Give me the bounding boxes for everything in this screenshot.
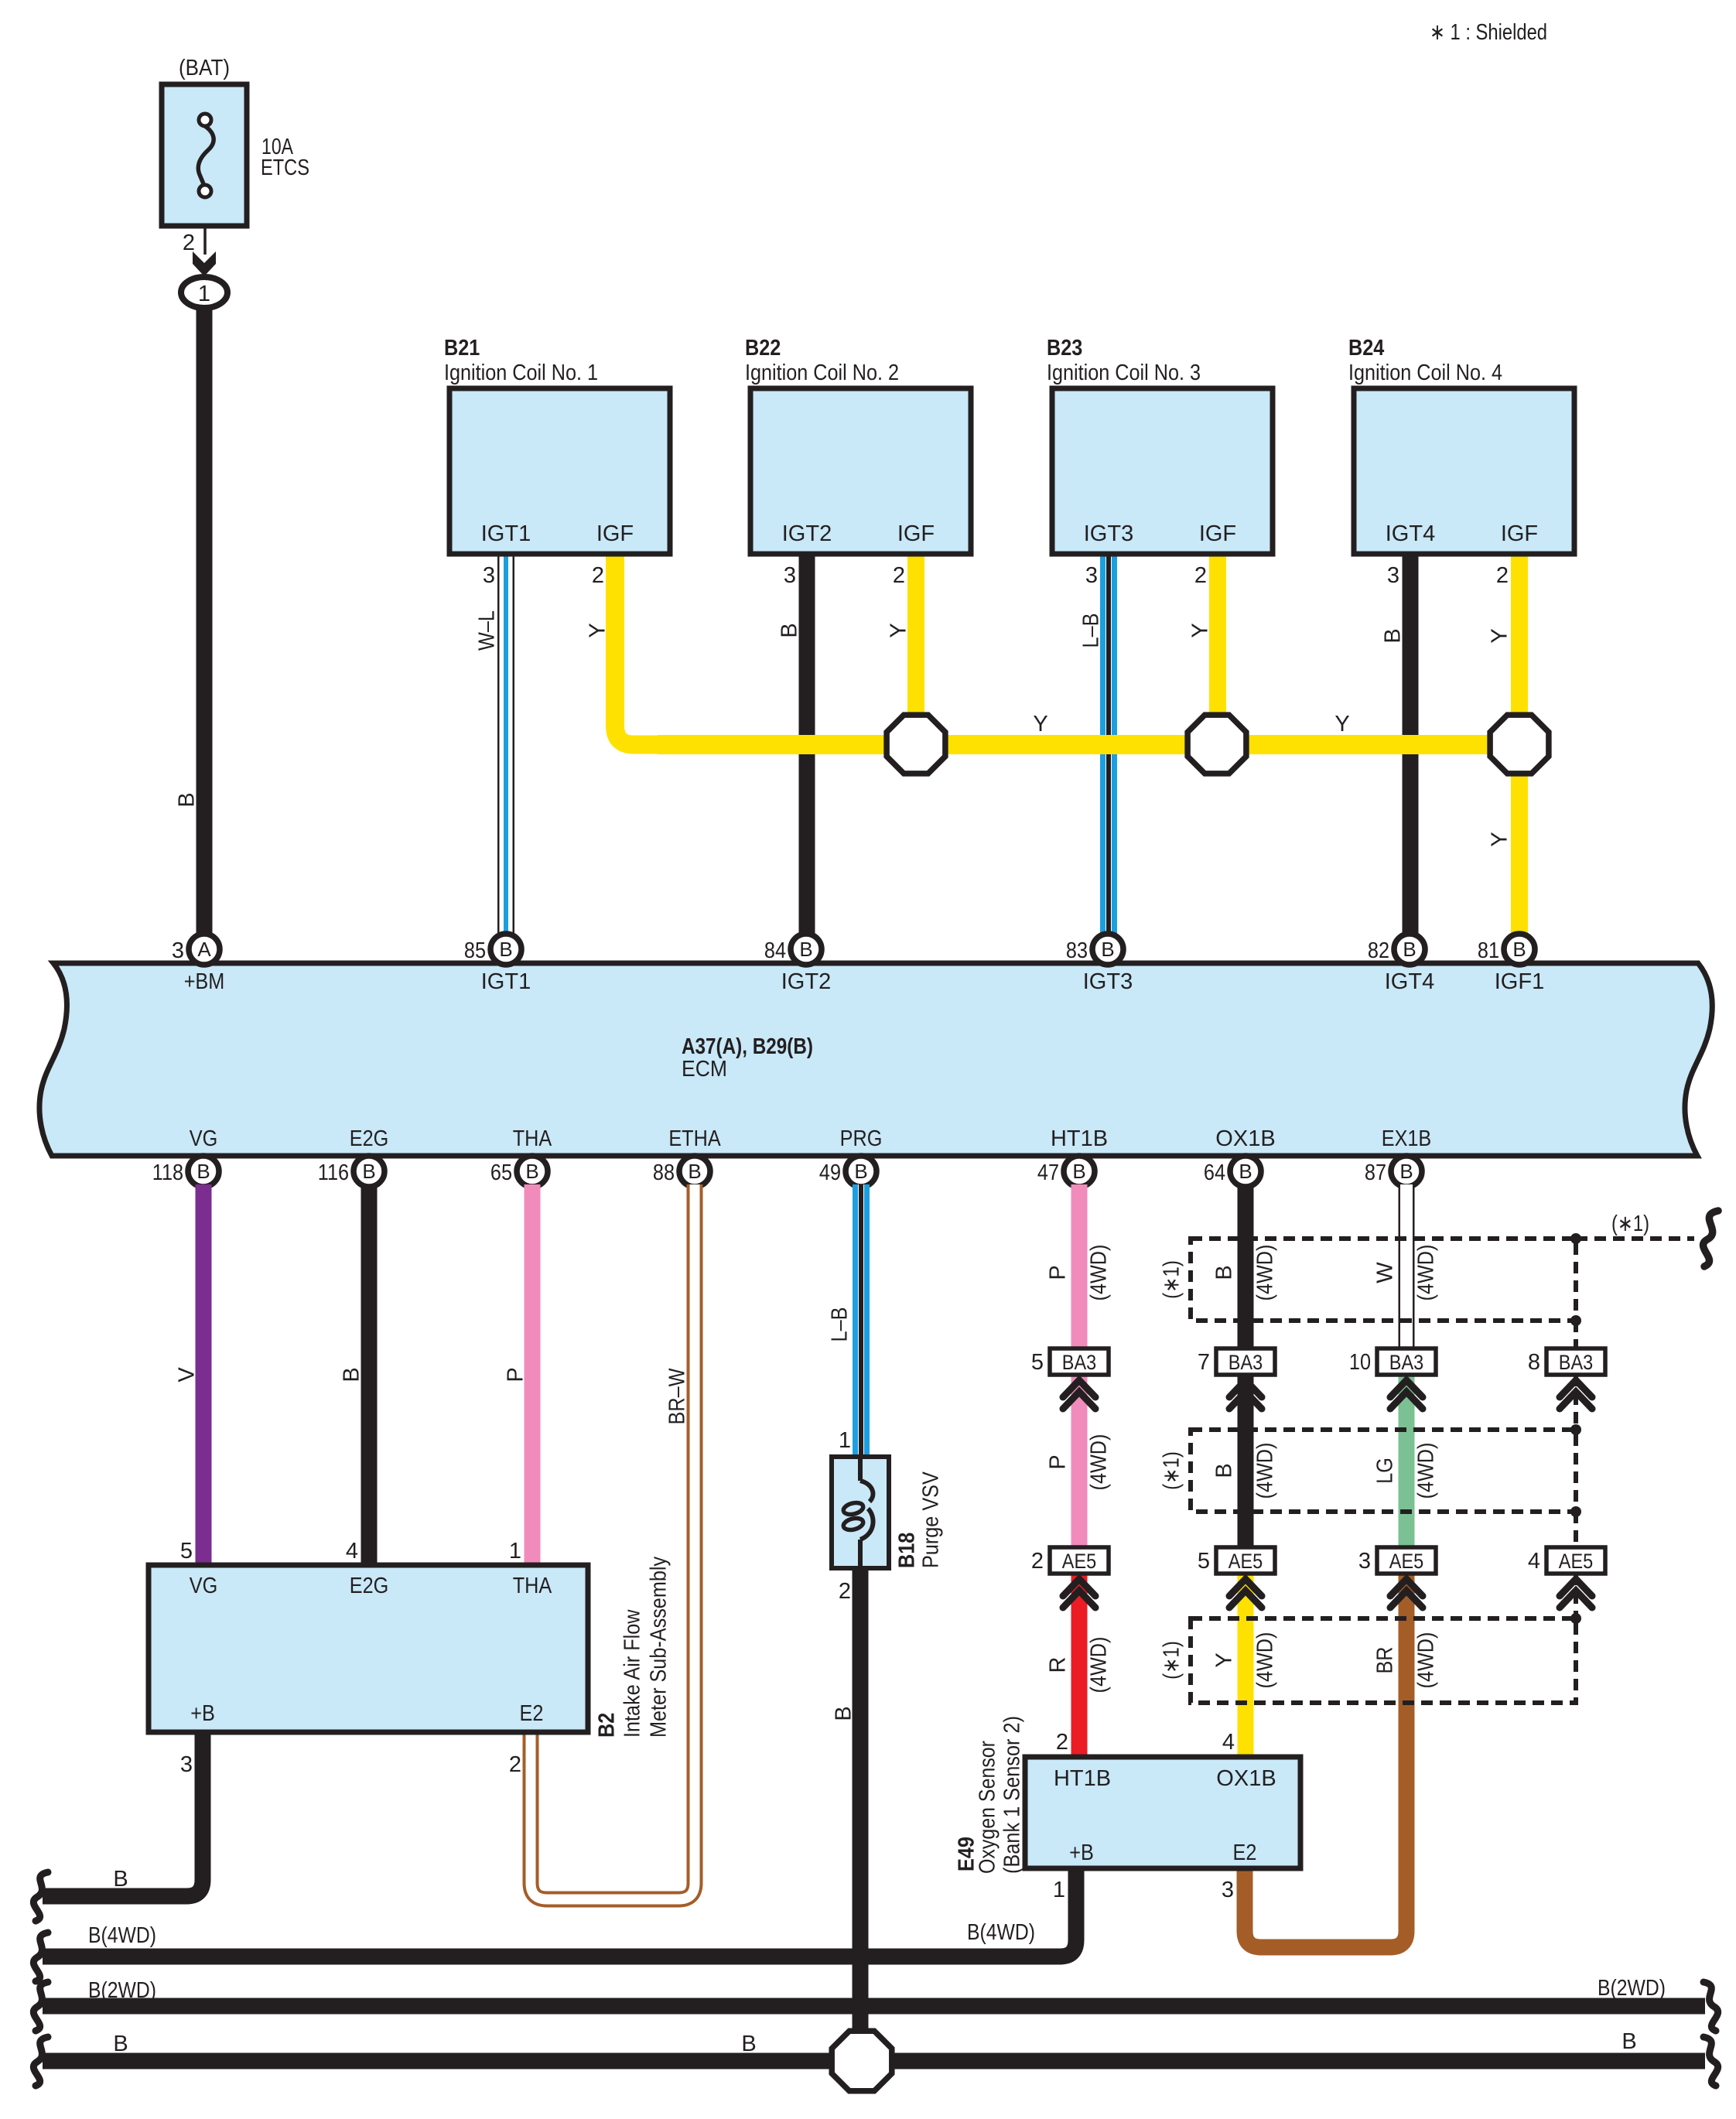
svg-text:HT1B: HT1B <box>1054 1766 1111 1791</box>
svg-text:LG: LG <box>1372 1458 1397 1484</box>
svg-text:B(4WD): B(4WD) <box>88 1923 156 1948</box>
svg-text:118: 118 <box>152 1160 183 1185</box>
svg-text:2: 2 <box>893 563 905 588</box>
svg-text:B: B <box>741 2032 756 2056</box>
svg-text:5: 5 <box>180 1539 193 1564</box>
svg-text:(4WD): (4WD) <box>1086 1245 1111 1301</box>
svg-text:(4WD): (4WD) <box>1413 1443 1438 1499</box>
svg-text:+B: +B <box>190 1701 215 1726</box>
svg-text:VG: VG <box>190 1126 218 1151</box>
svg-text:(∗1): (∗1) <box>1611 1212 1649 1236</box>
svg-text:B: B <box>1399 1160 1413 1183</box>
svg-text:BR: BR <box>1372 1647 1397 1674</box>
svg-text:IGT4: IGT4 <box>1385 969 1435 994</box>
svg-text:3: 3 <box>483 563 495 588</box>
svg-text:IGF: IGF <box>596 521 634 546</box>
svg-text:B18: B18 <box>894 1533 919 1568</box>
svg-text:3: 3 <box>784 563 796 588</box>
svg-text:3: 3 <box>1387 563 1399 588</box>
svg-text:B21: B21 <box>444 336 480 361</box>
svg-text:Ignition Coil No. 2: Ignition Coil No. 2 <box>745 361 899 385</box>
svg-text:V: V <box>174 1367 199 1382</box>
svg-text:Y: Y <box>886 623 911 637</box>
svg-text:W–L: W–L <box>474 610 499 651</box>
svg-text:B24: B24 <box>1348 336 1384 361</box>
svg-text:5: 5 <box>1031 1350 1044 1375</box>
svg-text:84: 84 <box>764 938 786 963</box>
svg-text:BR–W: BR–W <box>665 1368 689 1424</box>
svg-text:83: 83 <box>1066 938 1088 963</box>
svg-text:B23: B23 <box>1047 336 1082 361</box>
svg-text:AE5: AE5 <box>1062 1550 1096 1573</box>
svg-text:2: 2 <box>1194 563 1207 588</box>
svg-text:(Bank 1 Sensor 2): (Bank 1 Sensor 2) <box>1000 1716 1024 1874</box>
svg-text:BA3: BA3 <box>1559 1351 1593 1374</box>
svg-text:2: 2 <box>509 1752 521 1777</box>
svg-text:BA3: BA3 <box>1229 1351 1263 1374</box>
svg-text:P: P <box>1045 1454 1070 1469</box>
svg-text:+BM: +BM <box>184 969 225 994</box>
svg-text:82: 82 <box>1368 938 1389 963</box>
svg-text:B: B <box>362 1160 375 1183</box>
svg-text:VG: VG <box>190 1574 218 1598</box>
svg-text:PRG: PRG <box>840 1126 883 1151</box>
svg-text:(4WD): (4WD) <box>1413 1632 1438 1689</box>
svg-text:2: 2 <box>839 1579 851 1604</box>
svg-text:4: 4 <box>346 1539 358 1564</box>
svg-text:BA3: BA3 <box>1389 1351 1423 1374</box>
svg-text:(∗1): (∗1) <box>1159 1641 1184 1680</box>
svg-text:Y: Y <box>1211 1652 1236 1667</box>
svg-text:AE5: AE5 <box>1559 1550 1593 1573</box>
svg-text:B: B <box>854 1160 867 1183</box>
svg-text:B: B <box>113 1867 128 1892</box>
svg-text:3: 3 <box>1222 1878 1234 1902</box>
svg-text:ETCS: ETCS <box>261 156 309 180</box>
svg-text:B: B <box>499 938 512 961</box>
svg-text:E2G: E2G <box>350 1574 389 1598</box>
svg-text:3: 3 <box>172 938 184 963</box>
svg-text:Oxygen Sensor: Oxygen Sensor <box>975 1741 1000 1874</box>
svg-text:B: B <box>799 938 812 961</box>
svg-text:A37(A), B29(B): A37(A), B29(B) <box>682 1034 813 1059</box>
svg-text:OX1B: OX1B <box>1216 1766 1276 1791</box>
svg-text:1: 1 <box>509 1539 521 1564</box>
svg-text:IGT1: IGT1 <box>481 521 531 546</box>
svg-text:81: 81 <box>1478 938 1499 963</box>
svg-text:2: 2 <box>1056 1730 1068 1755</box>
svg-text:8: 8 <box>1528 1350 1540 1375</box>
svg-text:B: B <box>1403 938 1416 961</box>
svg-text:Ignition Coil No. 4: Ignition Coil No. 4 <box>1348 361 1502 385</box>
svg-text:85: 85 <box>464 938 486 963</box>
svg-text:64: 64 <box>1204 1160 1225 1185</box>
svg-text:ETHA: ETHA <box>668 1126 721 1151</box>
svg-text:B: B <box>174 792 199 807</box>
svg-text:IGT4: IGT4 <box>1386 521 1436 546</box>
svg-text:B: B <box>1211 1265 1236 1280</box>
svg-text:Purge VSV: Purge VSV <box>918 1471 943 1568</box>
svg-text:IGT2: IGT2 <box>782 521 832 546</box>
svg-text:B: B <box>831 1706 856 1721</box>
svg-text:(4WD): (4WD) <box>1086 1434 1111 1491</box>
svg-text:B: B <box>1211 1463 1236 1478</box>
svg-text:Y: Y <box>1487 628 1512 643</box>
svg-text:AE5: AE5 <box>1389 1550 1423 1573</box>
svg-text:116: 116 <box>318 1160 349 1185</box>
svg-text:87: 87 <box>1365 1160 1386 1185</box>
svg-text:W: W <box>1372 1262 1397 1283</box>
svg-text:Y: Y <box>1188 623 1212 637</box>
svg-text:AE5: AE5 <box>1229 1550 1263 1573</box>
svg-text:B: B <box>1380 628 1405 643</box>
svg-text:+B: +B <box>1069 1840 1094 1865</box>
svg-text:B22: B22 <box>745 336 781 361</box>
svg-text:4: 4 <box>1528 1549 1540 1574</box>
svg-text:2: 2 <box>1031 1549 1044 1574</box>
svg-text:Meter Sub-Assembly: Meter Sub-Assembly <box>646 1556 671 1738</box>
svg-text:1: 1 <box>1053 1878 1065 1902</box>
svg-text:R: R <box>1045 1657 1070 1673</box>
svg-text:4: 4 <box>1222 1730 1235 1755</box>
svg-text:B(2WD): B(2WD) <box>88 1978 156 2003</box>
svg-text:5: 5 <box>1198 1549 1210 1574</box>
svg-text:(4WD): (4WD) <box>1252 1245 1277 1301</box>
svg-text:B: B <box>1072 1160 1085 1183</box>
svg-text:B: B <box>525 1160 538 1183</box>
svg-text:P: P <box>503 1367 528 1382</box>
svg-text:(BAT): (BAT) <box>179 56 230 80</box>
svg-text:65: 65 <box>490 1160 512 1185</box>
svg-text:2: 2 <box>183 231 195 255</box>
svg-text:B2: B2 <box>594 1713 619 1738</box>
svg-text:HT1B: HT1B <box>1051 1126 1108 1151</box>
svg-text:3: 3 <box>180 1752 193 1777</box>
svg-text:B: B <box>1512 938 1526 961</box>
svg-text:L–B: L–B <box>827 1307 852 1342</box>
svg-text:2: 2 <box>592 563 604 588</box>
svg-text:∗ 1 : Shielded: ∗ 1 : Shielded <box>1430 20 1547 45</box>
svg-text:A: A <box>197 938 211 961</box>
svg-text:Y: Y <box>1487 832 1512 846</box>
svg-text:IGT1: IGT1 <box>481 969 531 994</box>
svg-text:47: 47 <box>1037 1160 1059 1185</box>
svg-text:(4WD): (4WD) <box>1413 1245 1438 1301</box>
svg-text:(∗1): (∗1) <box>1159 1451 1184 1490</box>
svg-text:B: B <box>1622 2029 1636 2054</box>
svg-text:3: 3 <box>1085 563 1098 588</box>
svg-text:IGF: IGF <box>1501 521 1538 546</box>
svg-text:ECM: ECM <box>682 1057 727 1082</box>
svg-text:49: 49 <box>819 1160 841 1185</box>
svg-text:IGT3: IGT3 <box>1083 969 1133 994</box>
svg-text:BA3: BA3 <box>1062 1351 1096 1374</box>
svg-text:2: 2 <box>1496 563 1509 588</box>
svg-text:Y: Y <box>1334 712 1349 737</box>
svg-text:E2: E2 <box>520 1701 544 1726</box>
svg-text:Y: Y <box>1033 712 1047 737</box>
svg-text:Ignition Coil No. 1: Ignition Coil No. 1 <box>444 361 598 385</box>
svg-text:(4WD): (4WD) <box>1252 1443 1277 1499</box>
svg-text:Ignition Coil No. 3: Ignition Coil No. 3 <box>1047 361 1201 385</box>
svg-text:IGF1: IGF1 <box>1495 969 1545 994</box>
svg-text:IGF: IGF <box>1199 521 1236 546</box>
svg-text:B: B <box>1101 938 1114 961</box>
svg-text:IGT3: IGT3 <box>1084 521 1134 546</box>
svg-text:Y: Y <box>585 623 610 637</box>
svg-text:THA: THA <box>513 1574 552 1598</box>
svg-text:B(2WD): B(2WD) <box>1598 1976 1666 2001</box>
svg-text:P: P <box>1045 1265 1070 1280</box>
svg-text:B: B <box>1239 1160 1252 1183</box>
svg-text:Intake Air Flow: Intake Air Flow <box>620 1609 644 1738</box>
svg-text:(∗1): (∗1) <box>1159 1260 1184 1299</box>
svg-text:1: 1 <box>198 282 210 306</box>
svg-text:10: 10 <box>1349 1350 1371 1375</box>
svg-text:(4WD): (4WD) <box>1086 1637 1111 1693</box>
svg-text:IGF: IGF <box>897 521 935 546</box>
svg-text:E2: E2 <box>1233 1840 1257 1865</box>
svg-text:IGT2: IGT2 <box>781 969 832 994</box>
svg-text:B: B <box>339 1367 364 1382</box>
svg-text:B: B <box>688 1160 701 1183</box>
svg-text:OX1B: OX1B <box>1215 1126 1275 1151</box>
svg-text:(4WD): (4WD) <box>1252 1632 1277 1689</box>
svg-text:3: 3 <box>1358 1549 1371 1574</box>
svg-text:B: B <box>777 623 801 637</box>
svg-text:EX1B: EX1B <box>1382 1126 1432 1151</box>
svg-text:B: B <box>196 1160 210 1183</box>
svg-text:88: 88 <box>653 1160 675 1185</box>
svg-text:E2G: E2G <box>350 1126 389 1151</box>
svg-text:B: B <box>113 2032 128 2056</box>
svg-text:THA: THA <box>513 1126 552 1151</box>
svg-text:B(4WD): B(4WD) <box>967 1920 1035 1945</box>
svg-text:1: 1 <box>839 1428 851 1453</box>
svg-text:L–B: L–B <box>1078 613 1103 648</box>
svg-text:7: 7 <box>1198 1350 1210 1375</box>
